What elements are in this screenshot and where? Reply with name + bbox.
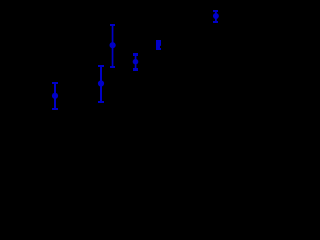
errorbar point P2 (x=101) [98, 65, 104, 103]
errorbar point P3 (x=112.5) [110, 24, 116, 68]
errorbar point P5 (x=158, collapsed blob) [156, 40, 161, 50]
errorbar point P1 (x=55) [52, 82, 58, 110]
errorbar point P4 (x=135.5) [133, 53, 139, 71]
errorbar point P6 (x=215.5) [213, 10, 219, 23]
notch in P5 blob [160, 46, 161, 48]
